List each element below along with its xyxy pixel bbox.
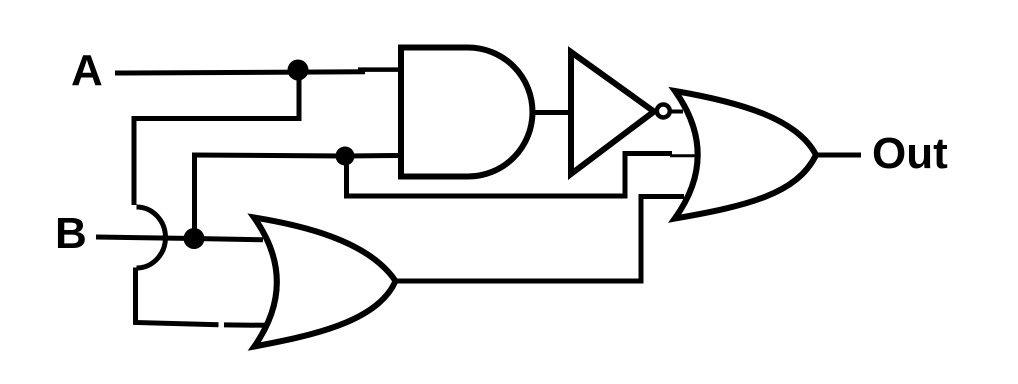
junction dot J3 xyxy=(336,147,355,166)
junction dot J1 on wire A xyxy=(288,60,309,81)
inverter (NOT gate) G2 xyxy=(571,52,654,174)
wire from hop down to bottom run xyxy=(136,268,219,325)
wire hop over B wire xyxy=(137,207,166,268)
svg-text:B: B xyxy=(55,209,87,258)
wire from lower OR gate output up to OR gate bottom input xyxy=(395,197,684,282)
wire from A to AND gate top input xyxy=(115,72,365,73)
wire from AND gate output to inverter xyxy=(531,110,571,115)
wire from J1 down and left (A branch) xyxy=(134,70,299,205)
thin wire segment reaching OR gate middle input xyxy=(670,154,699,157)
wire into AND gate bottom input xyxy=(192,155,401,156)
svg-text:A: A xyxy=(71,46,103,95)
wire from J2 up to AND gate lower input run xyxy=(192,156,197,239)
svg-text:Out: Out xyxy=(872,129,948,178)
OR gate G3 (output stage) xyxy=(675,91,816,219)
wire segment into lower OR gate bottom input xyxy=(224,322,266,327)
wire from OR gate output to Out label xyxy=(816,153,861,158)
AND gate G1 xyxy=(401,48,532,177)
wire from B to lower OR gate top input xyxy=(96,237,263,240)
wire from bubble to OR gate top input xyxy=(671,110,683,114)
lower OR gate G4 xyxy=(254,218,396,347)
inverter output bubble xyxy=(657,105,670,118)
wire from J3 down, right, and up to OR gate middle input xyxy=(347,154,673,197)
wire segment into AND gate top input xyxy=(358,67,401,72)
junction dot J2 on wire B xyxy=(184,228,205,249)
